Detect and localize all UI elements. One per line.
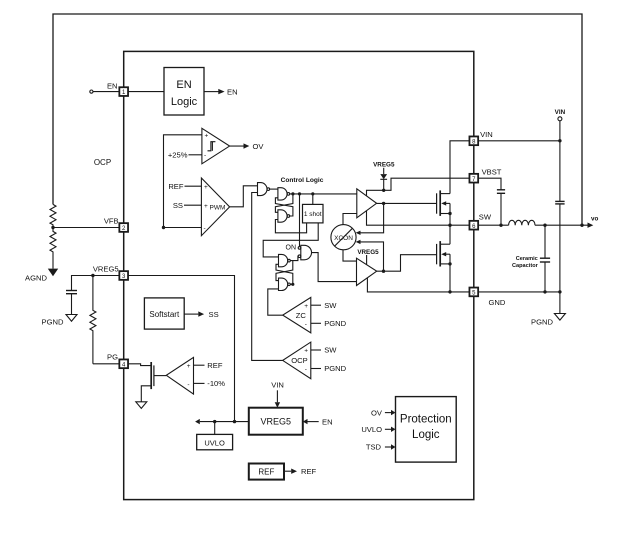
resistor R1 [50, 204, 56, 227]
svg-text:Softstart: Softstart [149, 310, 180, 319]
block Protection Logic [396, 397, 457, 463]
svg-text:Control Logic: Control Logic [281, 177, 324, 184]
wire ZC PGND input [311, 322, 321, 324]
svg-text:PG: PG [107, 353, 118, 362]
svg-text:+: + [205, 133, 209, 140]
node ceramic cap tap [543, 224, 546, 227]
wire bottom driver output to gate [377, 255, 437, 272]
wire VREG5 rail to pin3 [128, 276, 235, 422]
svg-text:VREG5: VREG5 [261, 417, 292, 427]
svg-text:-: - [204, 225, 206, 232]
wire XCON to bottom driver [343, 250, 357, 261]
node 1shot tap [311, 192, 314, 195]
svg-text:-: - [187, 382, 189, 389]
wire VREG5 output rail [200, 421, 249, 423]
pin 7 VBST [469, 174, 478, 183]
svg-text:+: + [304, 348, 308, 355]
svg-text:UVLO: UVLO [204, 438, 225, 447]
wire divider to VFB pin [53, 227, 119, 229]
svg-text:+: + [204, 184, 208, 191]
svg-text:VREG5: VREG5 [93, 264, 119, 273]
svg-text:EN: EN [176, 79, 191, 91]
node bottom gate [382, 270, 385, 273]
svg-text:EN: EN [227, 87, 238, 96]
wire boot cap to SW [500, 193, 502, 225]
node UVLO tap [213, 420, 216, 423]
wire feedback frame (vo to divider) [53, 14, 582, 225]
svg-text:SS: SS [209, 310, 219, 319]
wire OCP PGND input [311, 368, 321, 370]
svg-text:VIN: VIN [271, 381, 284, 390]
wire REF output arrow [284, 470, 291, 472]
wire ZC SW input [311, 304, 321, 306]
svg-text:OCP: OCP [94, 158, 111, 167]
block 1 shot [303, 204, 324, 223]
wire TSD input arrow [385, 446, 391, 448]
svg-text:OV: OV [253, 142, 265, 151]
wire UVLO input arrow [385, 428, 391, 430]
wire VFB to PWM minus [164, 227, 202, 229]
wire REF to PWM [185, 185, 202, 187]
wire VIN terminal down [559, 121, 561, 141]
op-amp PG comparator [166, 357, 193, 394]
node latch cross tap [291, 192, 294, 195]
node SW at Q1 source [448, 224, 451, 227]
op-amp ZC comparator [283, 297, 311, 333]
block VREG5 [249, 408, 303, 435]
wire ZC out to latch2 [268, 289, 283, 315]
wire ceramic cap to gnd [544, 262, 546, 292]
wire C1 to PGND [71, 294, 73, 315]
wire 1shot to ON latch [263, 223, 318, 257]
svg-text:VFB: VFB [104, 217, 119, 226]
gate AND F (ON gate) [301, 245, 312, 259]
ground PGND (left) [66, 315, 77, 322]
svg-text:Capacitor: Capacitor [512, 263, 539, 269]
hysteresis symbol [208, 142, 216, 151]
block UVLO [197, 434, 233, 449]
wire ON gate output to low driver [312, 253, 357, 282]
terminal VIN top [558, 117, 562, 121]
wire NAND A out to NAND B [270, 188, 278, 190]
node VREG5 ext junction [91, 274, 94, 277]
svg-text:OCP: OCP [291, 356, 307, 365]
wire PG FET source to ground [141, 386, 150, 402]
wire VIN node to input cap [559, 141, 561, 202]
wire OV output arrow [230, 145, 244, 147]
node GND at Q2 source [448, 290, 451, 293]
wire bottom driver gnd tap [367, 278, 469, 292]
wire GND pin to PGND [478, 291, 561, 293]
wire EN to VREG5 arrow [308, 421, 319, 423]
block REF [249, 464, 284, 480]
driver bottom (low side) [357, 258, 377, 285]
wire XCON to top driver [343, 214, 357, 225]
svg-text:UVLO: UVLO [361, 425, 382, 434]
svg-text:ZC: ZC [296, 311, 307, 320]
svg-text:VBST: VBST [482, 168, 502, 177]
node ON line tap [298, 192, 301, 195]
svg-text:+25%: +25% [168, 150, 188, 159]
svg-text:-: - [305, 366, 307, 373]
node latch2 out junction [291, 283, 294, 286]
op-amp PWM comparator [201, 178, 229, 236]
svg-text:EN: EN [107, 81, 118, 90]
gate NAND G latch2 lower [279, 278, 288, 290]
transistor Q1 high-side FET [436, 193, 438, 213]
wire latch2 cross-couple [276, 261, 293, 281]
ground AGND [48, 269, 58, 277]
svg-text:Ceramic: Ceramic [516, 256, 538, 262]
wire SS to PWM [184, 204, 201, 206]
gate NAND A [258, 183, 268, 196]
wire PG comp REF input [194, 364, 205, 366]
wire VFB to OV plus input [164, 135, 202, 228]
pin 8 VIN [469, 136, 478, 145]
node VFB divider junction [51, 226, 54, 229]
wire VREG5 pin to bypass cap [72, 276, 120, 291]
svg-text:Protection: Protection [400, 413, 452, 425]
svg-text:EN: EN [322, 417, 333, 426]
wire SW pin to inductor [478, 224, 509, 226]
ground PG source [136, 402, 147, 409]
node boot [382, 189, 385, 192]
svg-text:PGND: PGND [324, 319, 346, 328]
svg-text:Logic: Logic [412, 429, 440, 441]
svg-text:VIN: VIN [480, 130, 493, 139]
wire VBST pin to boot cap [478, 178, 501, 189]
node VREG5 rail tap [233, 420, 236, 423]
transistor Q3 PG open-drain [150, 362, 152, 389]
capacitor C4 ceramic [540, 257, 550, 259]
node top gate [382, 202, 385, 205]
capacitor C1 [66, 290, 77, 292]
wire OV input arrow [385, 412, 391, 414]
svg-text:-: - [305, 321, 307, 328]
svg-text:PGND: PGND [531, 318, 553, 327]
terminal EN input circle [90, 90, 93, 93]
svg-text:REF: REF [207, 361, 223, 370]
inductor L1 [509, 220, 535, 225]
wire UVLO connection [214, 422, 216, 435]
ground PGND (right) [554, 314, 565, 321]
block Softstart [144, 298, 184, 329]
capacitor C2 input [555, 200, 564, 202]
pin 3 VREG5 [119, 271, 128, 280]
svg-text:REF: REF [301, 467, 317, 476]
driver top (high side) [357, 189, 377, 218]
diode D1 boot [383, 168, 385, 174]
wire PG comparator to gate [154, 375, 166, 377]
node input cap gnd [558, 290, 561, 293]
gate NAND B latch1 [278, 188, 287, 200]
svg-text:1 shot: 1 shot [304, 211, 322, 218]
pin 5 GND [469, 288, 478, 297]
wire PG comp -10% input [194, 382, 205, 384]
svg-text:+: + [204, 203, 208, 210]
pin 2 VFB [119, 223, 128, 232]
wire top driver output to gate [377, 202, 437, 204]
wire VIN to VREG5 block arrow [276, 390, 278, 402]
svg-text:-: - [204, 152, 206, 159]
svg-text:Logic: Logic [171, 96, 198, 108]
svg-text:SW: SW [324, 346, 337, 355]
svg-text:XCON: XCON [334, 235, 353, 242]
svg-text:SW: SW [479, 213, 492, 222]
svg-text:VIN: VIN [555, 109, 566, 116]
wire top driver lower tap to SW [367, 211, 470, 226]
svg-text:AGND: AGND [25, 274, 47, 283]
node VFB internal junction [162, 226, 165, 229]
op-amp OV comparator [202, 128, 230, 164]
svg-text:+: + [187, 363, 191, 370]
EN Logic block [164, 68, 204, 116]
resistor R3 PG pull-up [90, 276, 96, 364]
svg-text:SW: SW [324, 301, 337, 310]
wire +25% to OV minus input [189, 154, 202, 156]
wire pin1 to EN Logic [128, 91, 164, 93]
svg-text:REF: REF [258, 468, 274, 477]
svg-text:PGND: PGND [42, 318, 64, 327]
svg-text:-10%: -10% [207, 379, 225, 388]
svg-text:PWM: PWM [210, 205, 226, 212]
wire PWM output [230, 186, 258, 207]
wire input cap to PGND [559, 204, 561, 292]
svg-text:REF: REF [168, 182, 184, 191]
transistor Q2 low-side FET [436, 244, 438, 264]
wire inductor to vo arrow [535, 224, 588, 226]
wire vo to ceramic cap [544, 225, 546, 258]
wire boot node to VBST pin [384, 178, 470, 190]
svg-text:+: + [304, 303, 308, 310]
svg-text:OV: OV [371, 408, 383, 417]
IC block outline U1 [124, 51, 474, 499]
wire EN terminal to pin 1 [93, 91, 119, 93]
wire gnd node down [559, 292, 561, 314]
node VIN input [558, 139, 561, 142]
wire NAND D reset input from 1shot [275, 220, 306, 233]
circle XCON [331, 225, 356, 250]
svg-text:SS: SS [173, 201, 183, 210]
pin 4 PG [119, 359, 128, 368]
wire top gate sense into XCON [360, 203, 384, 232]
node ceramic gnd [543, 290, 546, 293]
capacitor C3 bootstrap [497, 189, 505, 191]
gate NAND D latch1 lower [278, 210, 287, 222]
wire VREG5 stub to bottom driver [366, 255, 368, 265]
op-amp OCP comparator [283, 342, 311, 379]
svg-text:ON: ON [286, 244, 297, 251]
svg-text:TSD: TSD [366, 443, 382, 452]
wire OCP feedback to NAND A [252, 193, 283, 361]
pin 6 SW [469, 221, 478, 230]
wire PG pin to FET drain [128, 364, 151, 366]
wire E out to F [290, 256, 298, 260]
resistor R2 [50, 228, 56, 269]
wire R3 to PG pin [93, 363, 120, 365]
wire OCP SW input [311, 349, 321, 351]
gate NAND E latch2 [279, 254, 288, 266]
svg-text:VREG5: VREG5 [373, 161, 395, 168]
wire top driver power tap to boot node [367, 190, 384, 196]
node frame tap [580, 224, 583, 227]
wire ON line down [299, 194, 301, 247]
svg-text:vo: vo [591, 216, 599, 223]
wire SS output arrow [184, 313, 198, 315]
wire VIN pin to Q1 drain [450, 141, 470, 194]
wire EN Logic output arrow [204, 91, 219, 93]
svg-text:PGND: PGND [324, 364, 346, 373]
pin 1 EN [119, 87, 128, 96]
wire latch1 cross-couple [275, 194, 293, 212]
wire 1shot top [312, 194, 314, 205]
wire bottom gate sense into XCON [360, 242, 384, 271]
svg-text:VREG5: VREG5 [357, 249, 379, 256]
node boot cap SW [499, 224, 502, 227]
svg-text:GND: GND [489, 298, 506, 307]
wire VIN pin to input node [478, 140, 560, 142]
wire main PWM set line [290, 193, 357, 195]
